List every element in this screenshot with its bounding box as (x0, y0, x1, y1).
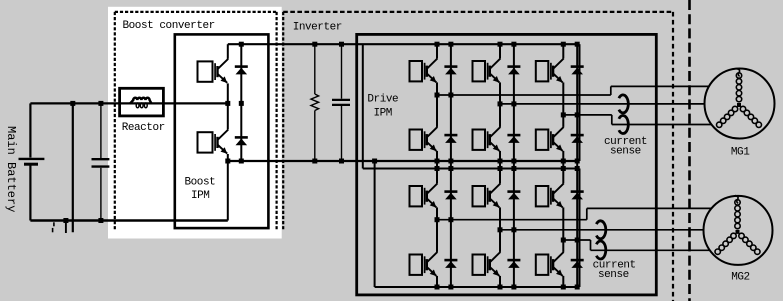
vehicle boundary dashed line (688, 0, 691, 301)
junction dots: column 1 on DC- rail (435, 159, 440, 164)
free-wheel diode D5 (col 1, row 3) (444, 190, 457, 193)
wire: center vertical link (72, 103, 74, 232)
svg-text:MG2: MG2 (731, 271, 749, 283)
inverter IGBT Q4 (col 1, row 2) (410, 130, 423, 150)
junction dots: column 2 on MG2 + bus (498, 166, 503, 171)
svg-text:Inverter: Inverter (293, 22, 342, 34)
boost IPM case (175, 34, 269, 228)
junction dots: column 3 on MG2 + bus (561, 166, 566, 171)
bleeder resistor R1 (314, 44, 316, 94)
junction: Q1 emitter / mid rail (225, 101, 230, 106)
inverter IGBT Q6 (col 1, row 4) (410, 255, 423, 275)
boost free-wheel diode D1 (235, 65, 248, 68)
junction dots: column 2 lower phase node (498, 227, 503, 232)
wire: boost diode bus (240, 44, 242, 161)
motor-generator MG1 (705, 69, 775, 139)
ground hatch stroke 2 (65, 221, 67, 234)
motor-generator MG2 (704, 196, 773, 265)
junction dots: column 3 on DC- rail (561, 159, 566, 164)
wire: column 2 IGBT vertical segments (499, 44, 501, 58)
free-wheel diode D13 (col 3, row 3) (571, 190, 584, 193)
wire: MG2 phase U (437, 219, 587, 221)
MG2 inverter module box (363, 168, 580, 170)
junction: C2 bottom (339, 159, 344, 164)
filter capacitor C1 (100, 103, 102, 158)
wire: column 2 diode vertical (513, 44, 515, 287)
inverter dashed enclosure (283, 11, 673, 13)
free-wheel diode D14 (col 3, row 4) (571, 259, 584, 262)
wire: boost mid to Q2 collector (227, 103, 229, 129)
svg-text:Reactor: Reactor (122, 122, 165, 134)
boost IGBT Q2 (lower) (198, 132, 213, 152)
wire: DC+ rail (228, 43, 580, 45)
drive IPM outer case (357, 34, 657, 295)
boost converter dashed enclosure (115, 11, 277, 13)
wire: column 3 IGBT vertical segments (562, 44, 564, 58)
wire: MG1 phase W (563, 114, 612, 116)
inverter IGBT Q11 (col 3, row 1) (536, 61, 549, 81)
wire: DC- rail (228, 160, 580, 162)
svg-text:Boost converter: Boost converter (123, 20, 215, 32)
junction: Q2 emitter / DC- rail (225, 159, 230, 164)
svg-text:Boost: Boost (185, 177, 216, 189)
wire: boost collector bus upper (227, 44, 229, 59)
boost IGBT Q1 (upper) (198, 61, 213, 81)
wire: MG2 phase V (500, 229, 704, 231)
inverter IGBT Q7 (col 2, row 1) (473, 61, 486, 81)
junction: C2 top (339, 42, 344, 47)
junction: D1 cathode on DC+ rail (239, 42, 244, 47)
current sensor CT2 (MG1 phase W) (619, 116, 628, 134)
junction: link/top wire (70, 101, 75, 106)
wire: column 3 diode vertical (576, 44, 578, 287)
ground hatch stroke 1 (53, 222, 55, 226)
junction: D1 anode / mid rail (239, 101, 244, 106)
junction dots: column 2 on DC- rail (498, 159, 503, 164)
wire: link stub between module buses (362, 161, 364, 169)
junction dots: column 3 lower phase node (561, 238, 566, 243)
wire: MG1 phase U (437, 94, 611, 96)
free-wheel diode D10 (col 2, row 4) (507, 259, 520, 262)
free-wheel diode D9 (col 2, row 3) (507, 190, 520, 193)
junction: C1 top (98, 101, 103, 106)
inverter IGBT Q14 (col 3, row 4) (536, 255, 549, 275)
junction dots: column 3 on MG2 - bus (561, 285, 566, 290)
junction dots: column 2 upper phase node (498, 101, 503, 106)
svg-text:IPM: IPM (191, 190, 209, 202)
junction: R1 bottom (312, 159, 317, 164)
boost free-wheel diode D2 (235, 136, 248, 139)
current sensor CT4 (MG2 phase W) (596, 241, 605, 259)
junction dots: column 1 on MG2 + bus (435, 166, 440, 171)
inverter IGBT Q8 (col 2, row 2) (473, 130, 486, 150)
junction dots: column 1 upper phase node (435, 93, 440, 98)
MG1 inverter module box (sides) (362, 44, 364, 161)
junction: D2 anode / DC- rail (239, 159, 244, 164)
svg-text:sense: sense (598, 269, 629, 281)
reactor box (120, 88, 164, 116)
junction dots: column 1 on DC+ rail (435, 42, 440, 47)
main battery cell symbol (29, 103, 31, 157)
boost converter white backdrop panel (108, 7, 282, 239)
DC link capacitor C2 (341, 44, 343, 98)
wire: boost Q2 emitter down to battery - wire (227, 154, 229, 221)
free-wheel diode D11 (col 3, row 1) (571, 65, 584, 68)
inverter IGBT Q5 (col 1, row 3) (410, 186, 423, 206)
wire: battery + top wire (30, 102, 227, 104)
junction: ground stub (63, 218, 68, 223)
inverter IGBT Q12 (col 3, row 2) (536, 130, 549, 150)
current sensor CT1 (MG1 phase V) (619, 95, 628, 113)
junction: MG2 module bus / DC- rail (372, 159, 377, 164)
inverter IGBT Q13 (col 3, row 3) (536, 186, 549, 206)
junction: R1 top (312, 42, 317, 47)
wire: battery - bottom wire (30, 219, 227, 221)
inverter IGBT Q3 (col 1, row 1) (410, 61, 423, 81)
junction dots: column 1 lower phase node (435, 217, 440, 222)
junction dots: column 1 on MG2 - bus (435, 285, 440, 290)
reactor inductor L1 (130, 98, 152, 104)
junction dots: column 3 upper phase node (561, 112, 566, 117)
inverter IGBT Q9 (col 2, row 3) (473, 186, 486, 206)
free-wheel diode D4 (col 1, row 2) (444, 134, 457, 137)
free-wheel diode D6 (col 1, row 4) (444, 259, 457, 262)
wire: MG1 phase V (500, 103, 705, 105)
inverter IGBT Q10 (col 2, row 4) (473, 255, 486, 275)
free-wheel diode D3 (col 1, row 1) (444, 65, 457, 68)
junction dots: column 2 on DC+ rail (498, 42, 503, 47)
svg-text:Drive: Drive (367, 94, 398, 106)
svg-text:sense: sense (610, 145, 641, 157)
svg-text:MG1: MG1 (731, 146, 750, 158)
wire: column 1 diode vertical (450, 44, 452, 287)
junction dots: column 2 on MG2 - bus (498, 285, 503, 290)
junction dots: column 3 on DC+ rail (561, 42, 566, 47)
wire: column 1 IGBT vertical segments (436, 44, 438, 58)
free-wheel diode D8 (col 2, row 2) (507, 134, 520, 137)
free-wheel diode D7 (col 2, row 1) (507, 65, 520, 68)
wire: MG2 phase W (563, 239, 590, 241)
junction: C1 bottom (98, 218, 103, 223)
free-wheel diode D12 (col 3, row 2) (571, 134, 584, 137)
wire: boost Q1 emitter to mid rail (227, 83, 229, 103)
svg-text:Main Battery: Main Battery (4, 126, 18, 212)
current sensor CT3 (MG2 phase V) (596, 221, 605, 239)
svg-text:IPM: IPM (374, 107, 392, 119)
